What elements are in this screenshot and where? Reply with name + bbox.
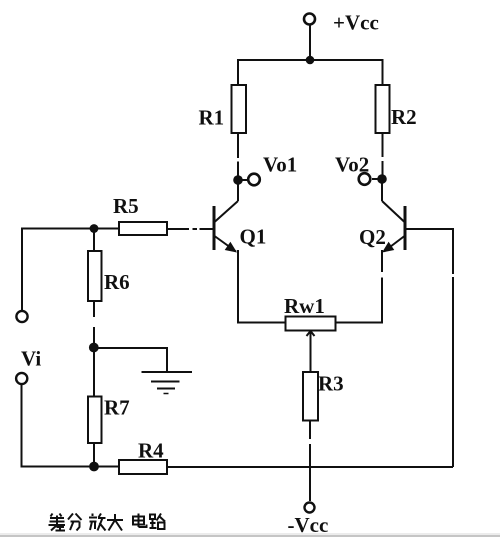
resistor R3: [303, 372, 318, 421]
wire left top rail: [22, 228, 119, 230]
input terminal Vi: [16, 373, 27, 384]
potentiometer Rw1: [286, 317, 336, 337]
wire left input drop: [21, 228, 23, 311]
svg-text:Vo2: Vo2: [335, 153, 369, 177]
bottom grey rule: [0, 533, 500, 535]
wire R6 stem bottom: [93, 301, 95, 344]
caption 差分放大电路 (drawn strokes): [49, 514, 166, 531]
char 放: [89, 514, 106, 531]
node Vo2: [359, 173, 387, 185]
wire top rail: [238, 59, 383, 61]
svg-text:Q2: Q2: [359, 225, 386, 249]
ground: [142, 372, 193, 394]
char 大: [107, 514, 123, 531]
transistor Q1: [214, 201, 238, 253]
char 差: [49, 514, 66, 531]
-Vcc terminal: [305, 503, 315, 513]
svg-text:Vo1: Vo1: [263, 153, 297, 177]
svg-text:Vi: Vi: [21, 347, 41, 371]
node R7/R4 junction: [89, 462, 99, 472]
resistor R7: [88, 397, 102, 444]
wire drop to R1: [237, 59, 239, 85]
wire R1 to Vo1: [237, 133, 239, 176]
svg-text:R2: R2: [391, 105, 417, 129]
node top junction: [306, 56, 315, 65]
wire R3 to -Vcc: [309, 420, 311, 501]
svg-text:+Vcc: +Vcc: [333, 11, 379, 35]
wire ground branch: [94, 347, 167, 372]
wire wiper to R3: [310, 330, 312, 372]
wire +Vcc stem: [309, 24, 311, 60]
node R5/R6 junction: [90, 224, 99, 233]
svg-text:R7: R7: [104, 396, 130, 420]
wire R7 stem top: [93, 348, 95, 397]
wire Vi drop: [21, 385, 119, 468]
resistor R1: [232, 85, 247, 133]
transistor Q2: [382, 201, 405, 253]
node R6/ground/R7 junction: [89, 343, 99, 353]
node Vo1: [233, 174, 260, 186]
resistor R6: [88, 251, 102, 301]
wire R6 stem top: [93, 228, 95, 251]
svg-text:R4: R4: [138, 439, 164, 463]
wire bottom rail: [167, 466, 453, 468]
char 路: [150, 514, 166, 530]
char 分: [68, 514, 82, 531]
svg-text:Q1: Q1: [240, 225, 267, 249]
resistor R4: [119, 460, 167, 474]
wire Vo1 to Q1 collector: [237, 184, 239, 201]
wire drop to R2: [382, 59, 384, 85]
wire R2 to Vo2: [382, 133, 384, 175]
char 电: [133, 514, 147, 528]
svg-text:R3: R3: [318, 372, 344, 396]
wire Q1 emitter down: [237, 250, 285, 323]
wire Q1 base: [167, 228, 213, 230]
svg-text:R6: R6: [104, 270, 130, 294]
wire R7 stem bottom: [93, 443, 95, 467]
wire Q2 base to right rail: [406, 228, 453, 467]
resistor R5: [119, 222, 167, 235]
+Vcc terminal: [304, 14, 315, 25]
wire Vo2 to Q2 collector: [381, 183, 383, 201]
input terminal upper: [16, 311, 27, 322]
svg-text:R1: R1: [199, 106, 225, 130]
svg-text:R5: R5: [113, 194, 139, 218]
wire Q2 emitter down: [334, 250, 383, 323]
svg-text:Rw1: Rw1: [284, 294, 325, 318]
resistor R2: [376, 85, 390, 133]
